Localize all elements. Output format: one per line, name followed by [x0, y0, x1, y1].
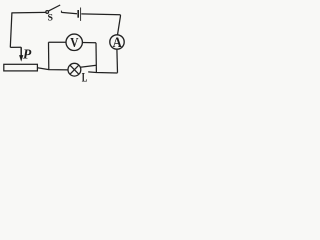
battery negative plate (short, thick) — [77, 10, 79, 18]
lamp L circle — [68, 63, 81, 76]
wire top-left horizontal to switch — [11, 11, 46, 14]
wire ammeter bottom down — [116, 49, 119, 73]
wire voltmeter left branch down to lamp node — [48, 42, 50, 69]
rheostat slider arrowhead — [19, 55, 23, 62]
voltmeter V circle — [66, 34, 82, 50]
wire switch to battery — [61, 12, 77, 13]
ammeter U-A circle — [110, 35, 124, 49]
wire battery to top-right corner — [81, 13, 120, 16]
rheostat P box — [4, 64, 38, 71]
svg-text:S: S — [47, 13, 53, 24]
wire rheostat right terminal to lamp — [37, 68, 68, 70]
switch S blade — [49, 5, 61, 11]
lamp X diagonal 1 — [70, 65, 79, 74]
wire bottom-right horizontal — [88, 72, 117, 73]
rheostat slider stem — [20, 47, 22, 56]
svg-text:V: V — [70, 35, 78, 50]
wire right vertical down to ammeter — [118, 15, 121, 35]
switch S pivot — [46, 11, 49, 14]
wire lamp right up-slanting to mid vertical — [80, 65, 96, 67]
wire voltmeter right — [82, 42, 96, 44]
rheostat slider wire horizontal — [10, 46, 21, 48]
switch right contact nub — [60, 11, 62, 13]
lamp X diagonal 2 — [70, 65, 79, 74]
svg-text:A: A — [113, 35, 123, 51]
wire left vertical (battery loop left side) — [10, 13, 12, 48]
wire voltmeter left — [49, 41, 67, 43]
svg-text:L: L — [82, 70, 88, 84]
wire mid vertical (voltmeter/lamp right branch) — [95, 43, 97, 73]
battery positive plate (long, thin) — [80, 8, 82, 21]
svg-text:P: P — [23, 47, 32, 62]
